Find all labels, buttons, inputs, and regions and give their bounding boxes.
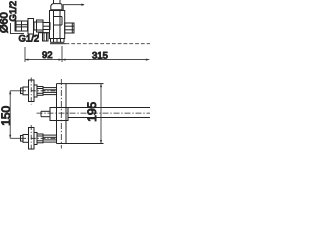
svg-text:315: 315	[92, 51, 108, 62]
riser pipe (front)	[56, 84, 58, 144]
hub	[34, 85, 37, 97]
hex nut (top view)	[37, 20, 44, 32]
spout socket (front)	[50, 108, 68, 121]
horizontal centerline	[21, 137, 57, 139]
escutcheon flange Ø60 (top view)	[28, 19, 34, 35]
connector fitting	[43, 135, 57, 142]
diverter knob below (top view)	[39, 32, 50, 34]
top valve assembly (front)	[21, 78, 57, 105]
valve knob face (top view)	[14, 20, 16, 32]
vertical centerline	[30, 125, 32, 152]
extension line middle	[61, 46, 63, 62]
inlet stub left of socket	[41, 110, 50, 112]
handle tick	[21, 88, 24, 94]
horizontal centerline	[21, 90, 57, 92]
inlet fitting G1/2 (top view)	[43, 23, 50, 30]
handle stem	[23, 135, 29, 143]
leader line	[63, 5, 84, 11]
riser top extension line	[57, 83, 104, 85]
riser bottom extension line	[66, 143, 104, 145]
svg-text:92: 92	[42, 50, 53, 61]
cartridge window (top view)	[54, 16, 63, 18]
dimension 150	[10, 91, 20, 139]
bottom valve assembly (front)	[21, 125, 57, 152]
threaded section	[37, 87, 43, 96]
valve knob body (top view)	[16, 21, 28, 31]
hub	[34, 133, 37, 145]
riser centerline	[60, 79, 62, 149]
svg-text:195: 195	[85, 101, 99, 121]
handle stem	[23, 87, 29, 95]
extension line left	[24, 47, 26, 62]
spout pipe (front)	[68, 107, 150, 109]
svg-text:G1/2: G1/2	[19, 33, 40, 44]
wall line dashed (top view)	[50, 43, 66, 45]
handle disc	[29, 80, 35, 102]
dimension 92 / 315	[25, 46, 149, 62]
aerator teeth under body (top view)	[50, 39, 52, 43]
connector fitting	[43, 88, 57, 95]
outlet fitting right (top view)	[65, 23, 74, 33]
svg-text:G1/2: G1/2	[8, 1, 19, 22]
threaded section	[37, 134, 43, 143]
svg-text:150: 150	[0, 105, 13, 125]
dimension 195	[100, 84, 102, 144]
valve main body (top view)	[50, 11, 65, 39]
vertical centerline	[30, 78, 32, 105]
riser pipe through body (top view)	[53, 11, 55, 39]
pipe collar	[51, 4, 62, 10]
dimension line	[25, 59, 149, 61]
riser pipe stub at top edge	[53, 0, 55, 4]
spout centerline	[37, 112, 151, 114]
neck (top view)	[34, 22, 37, 30]
leader from G1/2 label	[11, 23, 25, 34]
handle tick	[21, 136, 24, 142]
handle disc	[29, 128, 35, 150]
